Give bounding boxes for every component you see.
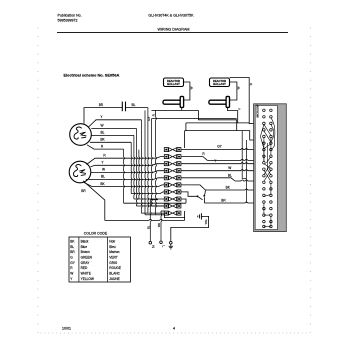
chassis ground symbol (label Y/G) — [198, 213, 208, 224]
wire W vertical drop to connector row 9 — [136, 128, 164, 206]
svg-text:5995399972: 5995399972 — [58, 18, 78, 22]
wire BR from switch to terminal board (label BR) — [204, 197, 264, 203]
svg-text:YELLOW: YELLOW — [81, 277, 94, 281]
inline connector column (10 poles) — [164, 148, 181, 216]
svg-text:Y/G: Y/G — [204, 219, 208, 225]
svg-text:GLHV30T4K & GLHV30T5K: GLHV30T4K & GLHV30T5K — [148, 14, 194, 18]
connector loop box — [158, 211, 185, 218]
wire R vertical drop — [124, 149, 186, 203]
wire Y from motor M1 (label Y) — [89, 115, 142, 127]
wire branch vertical — [138, 150, 141, 199]
svg-text:Publication No.: Publication No. — [58, 14, 82, 18]
wire lamp bus lower — [186, 123, 249, 131]
header rule — [57, 31, 288, 33]
wire BL to terminal board (label BL) — [181, 174, 264, 183]
wire R to terminal board (label R) — [181, 152, 264, 160]
svg-text:BL: BL — [228, 174, 232, 178]
svg-text:BR: BR — [221, 199, 226, 203]
terminal board traces — [260, 118, 275, 227]
svg-text:GRIS: GRIS — [109, 261, 117, 265]
svg-text:Brown: Brown — [81, 250, 90, 254]
fluorescent lamp L1 — [163, 96, 184, 107]
svg-text:4: 4 — [173, 327, 175, 331]
terminal N — [149, 241, 155, 248]
wire Y to terminal board (label Y) — [181, 159, 264, 164]
switch S1 — [197, 190, 206, 200]
wire BK from motor M1 (label BK) — [90, 138, 131, 143]
wire BL vertical drop to connector row 8 — [134, 135, 165, 199]
ballast box B1 — [164, 78, 184, 87]
wire connector row 7 to switch — [181, 192, 197, 196]
svg-text:GRAY: GRAY — [81, 261, 91, 265]
svg-text:Electrical scheme No. SE056A: Electrical scheme No. SE056A — [64, 72, 120, 77]
header model text — [148, 14, 194, 18]
svg-text:W: W — [70, 272, 73, 276]
wire N (label BL) — [146, 200, 158, 242]
electrical scheme title — [64, 72, 120, 77]
svg-text:Y: Y — [238, 108, 242, 110]
svg-text:BALLAST: BALLAST — [213, 82, 226, 86]
svg-text:COLOR CODE: COLOR CODE — [84, 232, 108, 236]
svg-text:GY: GY — [147, 117, 151, 121]
wire vertical from lamp return — [145, 110, 158, 214]
svg-text:L: L — [162, 245, 166, 247]
terminal earth — [169, 241, 173, 249]
wire lamp bus to terminal board — [185, 123, 264, 148]
wire BK vertical drop to connector row 7 — [131, 142, 164, 193]
color code table title — [84, 232, 108, 236]
footer date text — [62, 327, 71, 331]
wire Y from motor M2 (label Y) — [91, 161, 165, 167]
terminal L — [160, 241, 166, 247]
footer page number — [173, 327, 175, 331]
svg-text:10/01: 10/01 — [62, 327, 71, 331]
svg-text:WIRING DIAGRAM: WIRING DIAGRAM — [158, 28, 190, 32]
wire W from motor M2 (label W) — [91, 168, 165, 173]
wire GY vertical (label GY) — [147, 117, 164, 206]
svg-text:BLANC: BLANC — [109, 272, 120, 276]
svg-text:Black: Black — [81, 240, 89, 244]
svg-text:JAUNE: JAUNE — [109, 277, 119, 281]
svg-text:Marron: Marron — [109, 250, 119, 254]
svg-text:BL: BL — [132, 103, 136, 107]
svg-text:N: N — [151, 245, 155, 248]
svg-text:Bleu: Bleu — [109, 245, 116, 249]
wire BR bottom run to connector loop — [105, 218, 185, 221]
wire R from motor M2 (label R) — [87, 153, 165, 164]
svg-text:Blue: Blue — [81, 245, 88, 249]
wire Y vertical drop to connector row 10 — [141, 120, 164, 213]
wire BK from motor M2 (label BK) — [84, 182, 165, 187]
svg-text:BR: BR — [81, 189, 86, 193]
wire from capacitor down (vertical braid) — [147, 108, 150, 214]
wire BL from capacitor — [126, 107, 148, 109]
wire label BR — [99, 103, 104, 107]
svg-text:MICROSW: MICROSW — [256, 104, 260, 117]
svg-text:BR: BR — [70, 250, 75, 254]
svg-text:WHITE: WHITE — [81, 272, 91, 276]
wire BR from motor M1 to capacitor — [84, 108, 122, 124]
svg-text:RED: RED — [81, 266, 88, 270]
svg-text:W: W — [100, 124, 103, 128]
wire R vertical (label R) — [152, 110, 157, 214]
wire L (label BR) — [157, 211, 165, 241]
wire ballast B1 to lamp L1 (label W) — [183, 82, 194, 100]
header wiring diagram title — [158, 28, 190, 32]
svg-text:BR: BR — [99, 103, 104, 107]
wire BL from motor M1 (label BL) — [91, 131, 134, 136]
svg-text:BL: BL — [70, 245, 74, 249]
svg-text:GREEN: GREEN — [81, 256, 93, 260]
svg-text:BR: BR — [157, 223, 161, 227]
wire ballast B2 to lamp L2 (label W) — [229, 82, 241, 100]
wire lamp housing 1 bottom edge — [152, 110, 237, 130]
terminal board vertical label — [256, 104, 260, 117]
svg-text:BL: BL — [146, 225, 150, 229]
wire W to terminal board (label W) — [181, 166, 264, 171]
svg-text:W: W — [228, 166, 231, 170]
svg-text:R: R — [249, 83, 253, 85]
wire lamp L1 return — [152, 108, 199, 111]
svg-text:BL: BL — [101, 175, 105, 179]
wire R top run (label R) — [230, 78, 253, 125]
wire GY to terminal board (label GY) — [181, 145, 264, 150]
wire BK to terminal board (label BK) — [181, 185, 264, 190]
terminal board pins — [263, 109, 273, 228]
fan motor M2 — [69, 161, 91, 183]
svg-text:VERT: VERT — [109, 256, 117, 260]
wire earth Y/G — [171, 216, 209, 241]
color code table — [69, 237, 131, 282]
header publication number text — [58, 14, 82, 23]
vertical feeder wires near board — [242, 131, 246, 203]
svg-text:BL: BL — [101, 131, 105, 135]
svg-text:W: W — [237, 86, 241, 89]
svg-text:BALLAST: BALLAST — [167, 82, 180, 86]
ballast box B2 — [210, 78, 230, 87]
wire label BL — [132, 103, 136, 107]
wire R from motor M1 (label R) — [87, 144, 124, 149]
svg-text:W: W — [102, 168, 105, 172]
svg-text:ROUGE: ROUGE — [109, 266, 121, 270]
fan motor M1 — [70, 124, 92, 146]
terminal board body — [254, 104, 287, 232]
svg-text:W: W — [190, 86, 194, 89]
svg-text:Noir: Noir — [109, 240, 116, 244]
wire W from motor M1 (label W) — [91, 124, 136, 129]
svg-text:R: R — [152, 114, 156, 116]
wire connector row 8 stub — [181, 199, 186, 203]
wire lamp L2 return (label Y) — [228, 108, 242, 123]
wire BL from motor M2 (label BL) — [86, 175, 165, 180]
capacitor C1 — [122, 102, 125, 112]
wire BR from motor M2 bottom (label BR) — [81, 181, 105, 221]
fluorescent lamp L2 — [209, 96, 230, 107]
